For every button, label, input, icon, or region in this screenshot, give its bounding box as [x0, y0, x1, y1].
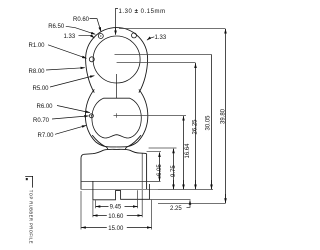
- dimension 6.05 vertical: [159, 153, 161, 156]
- top inner ear bump left R0.60: [98, 34, 103, 39]
- svg-text:R8.00: R8.00: [29, 69, 46, 75]
- left inner bump R1.00: [89, 57, 94, 62]
- dimension 10.60 horizontal: [93, 215, 96, 217]
- bottom extension line y=203.5 for 39.80: [158, 203, 226, 205]
- hooks bottom extension line for 2.25: [149, 199, 190, 201]
- extension line y=28 top to 39.80 dim: [119, 28, 226, 30]
- 9.45 extension verticals: [93, 190, 138, 217]
- neck fillet right R7.00: [125, 135, 141, 149]
- svg-text:26.25: 26.25: [192, 119, 198, 135]
- svg-text:6.05: 6.05: [157, 164, 163, 176]
- svg-text:30.05: 30.05: [205, 115, 211, 131]
- base bottom plate line: [81, 189, 158, 191]
- extension line y=62 from centerline to 26.25 dim: [117, 62, 196, 64]
- extension line y=147.8 neck to 9.75 dim: [149, 147, 177, 149]
- dot in left ear: [100, 35, 101, 36]
- dimension 9.75 vertical: [173, 149, 175, 152]
- svg-text:10.60: 10.60: [108, 214, 124, 220]
- profile outline: lower bubble outer wall right: [117, 89, 148, 147]
- bottom plate extension to right dims: [158, 189, 213, 191]
- dimension 30.05 vertical: [211, 55, 213, 190]
- profile outline: upper bubble outer wall R6.50/R8.00: [86, 28, 148, 93]
- svg-text:9.45: 9.45: [110, 204, 122, 210]
- svg-text:15.00: 15.00: [108, 226, 124, 232]
- svg-text:R0.70: R0.70: [33, 118, 50, 124]
- center mark lower circle: [116, 113, 118, 118]
- dimension 15.00 horizontal: [81, 227, 86, 229]
- left margin bracket: [25, 176, 32, 187]
- svg-text:1.33: 1.33: [64, 34, 76, 40]
- lower inner chamber wall: [92, 98, 141, 138]
- lower circle center line y=115.3 to 16.64 dim: [114, 115, 187, 117]
- top inner ear bump right R0.60: [132, 33, 137, 38]
- svg-text:1.30 ± 0.15mm: 1.30 ± 0.15mm: [119, 9, 166, 15]
- profile outline: lower bubble outer wall left: [85, 89, 116, 147]
- extension tick y=151.6 for 6.05 top: [147, 151, 161, 153]
- bottom interlock hooks: [93, 181, 149, 200]
- base dome top: [93, 149, 147, 153]
- svg-text:TOP RUBBER PROFILE: TOP RUBBER PROFILE: [29, 190, 34, 244]
- svg-text:R1.00: R1.00: [29, 43, 46, 49]
- svg-text:16.64: 16.64: [185, 143, 191, 159]
- dimension 39.80 vertical: [225, 29, 227, 32]
- base right inner wall, extends down as 10.60 extension: [141, 154, 143, 218]
- small circle R0.70 on lower inner wall: [91, 115, 92, 116]
- svg-text:R6.00: R6.00: [37, 104, 54, 110]
- svg-text:1.33: 1.33: [155, 35, 167, 41]
- svg-text:39.80: 39.80: [221, 108, 227, 124]
- svg-text:R0.60: R0.60: [73, 17, 90, 23]
- svg-text:R6.50: R6.50: [48, 24, 65, 30]
- svg-text:R5.00: R5.00: [33, 86, 50, 92]
- leader 1.30 wall thickness: vertical with arrow: [116, 9, 119, 32]
- dimension 16.64 vertical: [183, 116, 185, 119]
- neck fillet left R7.00: [92, 135, 108, 149]
- dimension 9.45 horizontal: [96, 206, 99, 208]
- base right outer wall: [146, 154, 148, 190]
- 15.00 extension verticals: [81, 191, 152, 230]
- left margin tiny mark: [26, 178, 28, 180]
- centerline upper: [116, 74, 118, 99]
- svg-text:R7.00: R7.00: [38, 133, 55, 139]
- base left shoulder: [84, 153, 93, 156]
- dimension 26.25 vertical: [195, 64, 197, 67]
- svg-text:2.25: 2.25: [170, 206, 182, 212]
- base left wall: [81, 154, 84, 189]
- upper inner chamber wall R5.00: [93, 36, 140, 83]
- extension line y=54.5 from profile to 30.05 dim: [115, 54, 212, 56]
- base channel floor (extends right as extension line for 6.05): [81, 181, 161, 183]
- svg-text:9.75: 9.75: [171, 165, 177, 177]
